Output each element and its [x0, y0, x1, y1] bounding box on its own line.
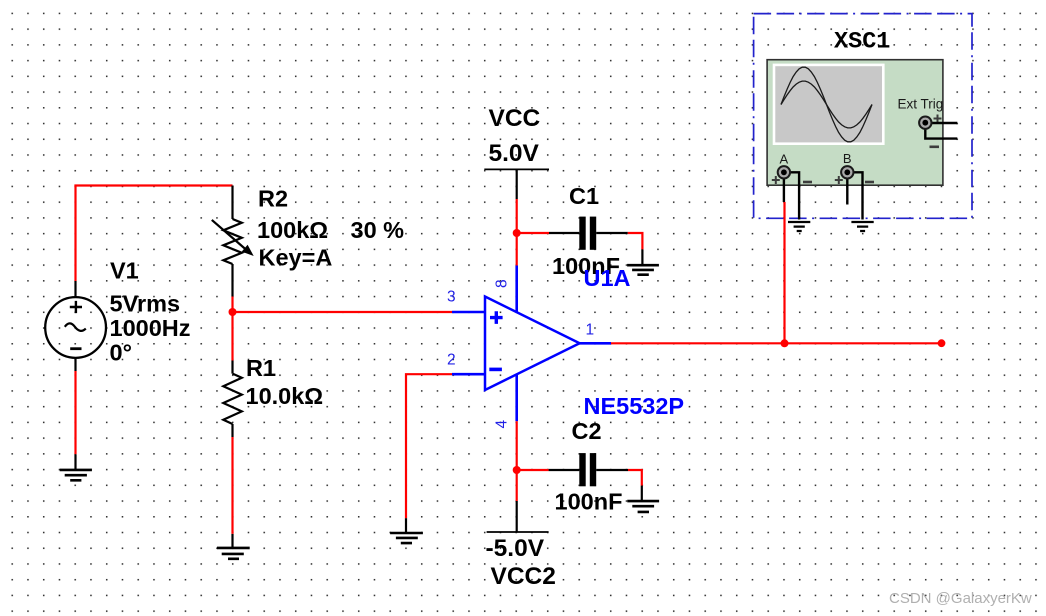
oscilloscope trace inner — [781, 81, 872, 128]
svg-text:NE5532P: NE5532P — [584, 393, 685, 419]
channel A ground — [788, 222, 810, 231]
channel B plus mark — [835, 176, 843, 184]
svg-text:Ext Trig: Ext Trig — [898, 97, 944, 112]
output end dot — [938, 339, 946, 347]
svg-text:C1: C1 — [569, 183, 599, 209]
svg-text:30 %: 30 % — [351, 217, 405, 243]
wire C2 right red corner — [628, 470, 642, 486]
svg-text:CSDN @GalaxyerKw: CSDN @GalaxyerKw — [889, 590, 1032, 607]
svg-text:10.0kΩ: 10.0kΩ — [246, 383, 324, 409]
wire C2 left red — [517, 469, 549, 471]
wire VCC red down to junction — [516, 199, 518, 266]
svg-text:B: B — [843, 151, 852, 166]
channel A plus wire down (black part) — [783, 172, 785, 202]
op-amp U1 pin3 stub blue — [452, 311, 485, 314]
wire V1 bottom red — [74, 371, 76, 454]
ground below pin2 wire — [390, 533, 423, 543]
svg-text:3: 3 — [447, 289, 456, 306]
svg-text:XSC1: XSC1 — [834, 29, 890, 56]
wire pin2 ground stub black — [405, 518, 407, 533]
svg-text:100kΩ: 100kΩ — [257, 217, 328, 243]
oscilloscope instrument body — [767, 60, 943, 186]
wire node down to R1 red — [231, 312, 233, 361]
op-amp U1 pin8 stub blue — [515, 266, 518, 313]
wire pin4 red down to junction — [516, 421, 518, 470]
channel B plus wire down stub — [846, 172, 848, 204]
wire R2 bottom lead black — [231, 264, 233, 297]
Ext Trig wire stub top — [930, 122, 957, 124]
ground right of C2 — [627, 501, 659, 512]
op-amp U1 triangle — [485, 297, 580, 391]
wire VCC2 red down — [516, 470, 518, 501]
wire C1 right red corner — [628, 233, 643, 249]
resistor R1 zigzag — [223, 374, 242, 424]
svg-text:VCC: VCC — [489, 105, 541, 132]
svg-text:V1: V1 — [110, 258, 139, 284]
wire R1 bottom lead black — [231, 424, 233, 437]
V1 minus mark — [70, 347, 81, 350]
svg-text:Key=A: Key=A — [259, 244, 333, 270]
junction dot C2/VCC2 — [513, 466, 521, 474]
oscilloscope trace outer — [781, 67, 872, 142]
AC source V1 circle — [45, 297, 106, 358]
wire C2 right black — [596, 469, 628, 471]
svg-text:R2: R2 — [258, 186, 288, 212]
channel A minus wire to ground — [787, 172, 799, 219]
resistor R2 zigzag — [223, 219, 242, 264]
wire R1 bottom red — [231, 437, 233, 534]
svg-text:2: 2 — [447, 352, 456, 369]
oscilloscope screen — [774, 65, 883, 144]
ground below V1 — [60, 470, 92, 480]
svg-text:0°: 0° — [110, 340, 132, 366]
channel A minus mark — [803, 181, 812, 184]
wire C1 ground stub black — [641, 249, 643, 264]
wire scope A red vertical — [783, 202, 785, 343]
wire V1 ground stub black — [74, 454, 76, 470]
svg-text:A: A — [780, 152, 789, 167]
potentiometer R2 arrow — [212, 220, 247, 250]
channel B minus mark — [865, 181, 874, 184]
wire R2 bottom red to node — [231, 297, 233, 313]
svg-text:-5.0V: -5.0V — [486, 535, 545, 562]
channel A plus mark — [772, 176, 780, 184]
Ext Trig wire stub bottom — [925, 128, 957, 139]
op-amp U1 pin4 stub blue — [515, 374, 518, 421]
junction dot output/scope — [781, 339, 789, 347]
svg-text:1000Hz: 1000Hz — [110, 315, 191, 341]
wire V1 top vertical (black lead) — [74, 281, 76, 298]
svg-text:1: 1 — [586, 322, 595, 339]
wire VCC stub black — [516, 169, 518, 199]
wire C2 ground stub black — [641, 486, 643, 501]
wire C1 left black — [549, 232, 579, 234]
svg-text:U1A: U1A — [584, 265, 631, 291]
wire top horizontal red — [74, 184, 232, 186]
wire V1 bottom black lead — [74, 358, 76, 371]
svg-text:5Vrms: 5Vrms — [110, 291, 181, 317]
svg-text:100nF: 100nF — [555, 489, 623, 515]
svg-text:5.0V: 5.0V — [489, 140, 540, 167]
Ext Trig minus mark — [930, 146, 940, 149]
V1 plus mark — [70, 301, 82, 313]
svg-text:VCC2: VCC2 — [491, 563, 556, 590]
ground right of C1 — [627, 265, 659, 275]
svg-text:8: 8 — [494, 279, 511, 288]
svg-text:C2: C2 — [572, 418, 602, 444]
wire R1 ground stub black — [231, 534, 233, 548]
wire R2 top lead black — [231, 186, 233, 220]
svg-text:R1: R1 — [246, 355, 276, 381]
wire node to op-amp pin3 red — [233, 311, 453, 313]
capacitor C1 plates — [579, 217, 585, 250]
wire op-amp pin2 corner red — [406, 374, 452, 518]
junction dot VCC/C1 — [513, 229, 521, 237]
oscilloscope XSC1 dashed selection box — [754, 14, 972, 219]
op-amp plus input mark — [490, 311, 503, 324]
Ext Trig plus mark — [934, 115, 942, 123]
wire VCC2 stub black — [516, 501, 518, 532]
wire R1 top lead black — [231, 361, 233, 374]
op-amp U1 pin1 output stub blue — [580, 342, 611, 345]
ground below R1 — [217, 548, 250, 559]
V1 sine mark — [65, 323, 86, 330]
wire output red — [611, 342, 942, 344]
VCC power bar — [484, 168, 549, 170]
wire C1 right black — [596, 232, 628, 234]
wire V1 top vertical red — [74, 186, 76, 282]
capacitor C2 plates — [579, 453, 585, 486]
node junction dot A — [229, 308, 237, 316]
channel B terminal — [841, 166, 853, 178]
channel B minus wire to ground — [850, 172, 862, 219]
channel B ground — [851, 222, 873, 231]
op-amp U1 pin2 stub blue — [452, 373, 485, 376]
Ext Trig terminal — [919, 117, 931, 129]
VCC2 power bar — [487, 531, 549, 533]
channel A terminal — [778, 166, 790, 178]
wire C2 left black — [549, 469, 580, 471]
svg-text:4: 4 — [494, 420, 511, 429]
op-amp minus input mark — [489, 368, 502, 372]
wire C1 left red — [517, 232, 549, 234]
